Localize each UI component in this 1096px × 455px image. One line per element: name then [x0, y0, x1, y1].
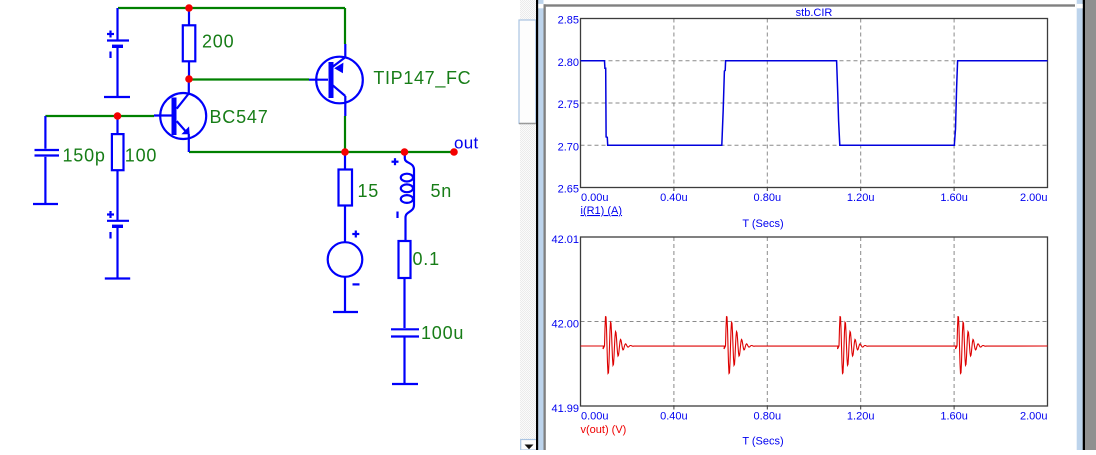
svg-text:0.40u: 0.40u: [660, 411, 688, 423]
svg-text:2.85: 2.85: [558, 15, 579, 27]
svg-text:BC547: BC547: [210, 107, 269, 127]
svg-text:v(out) (V): v(out) (V): [581, 424, 627, 436]
svg-text:0.1: 0.1: [413, 249, 440, 269]
svg-text:150p: 150p: [63, 146, 106, 166]
svg-text:2.00u: 2.00u: [1020, 411, 1048, 423]
svg-text:5n: 5n: [431, 181, 453, 201]
svg-text:out: out: [454, 134, 479, 153]
svg-text:T (Secs): T (Secs): [742, 436, 783, 448]
svg-text:2.80: 2.80: [558, 57, 579, 69]
svg-text:0.80u: 0.80u: [754, 192, 782, 204]
svg-text:41.99: 41.99: [551, 403, 579, 415]
svg-text:1.20u: 1.20u: [847, 192, 875, 204]
svg-text:i(R1) (A): i(R1) (A): [581, 205, 623, 217]
svg-text:42.00: 42.00: [551, 319, 579, 331]
svg-text:0.80u: 0.80u: [754, 411, 782, 423]
svg-text:stb.CIR: stb.CIR: [796, 7, 833, 19]
svg-text:42.01: 42.01: [551, 234, 579, 246]
svg-text:200: 200: [202, 32, 234, 52]
svg-text:2.65: 2.65: [558, 184, 579, 196]
svg-text:2.70: 2.70: [558, 141, 579, 153]
svg-text:1.60u: 1.60u: [940, 192, 968, 204]
svg-text:100u: 100u: [421, 323, 464, 343]
svg-text:1.60u: 1.60u: [940, 411, 968, 423]
svg-text:0.40u: 0.40u: [660, 192, 688, 204]
svg-text:0.00u: 0.00u: [581, 411, 609, 423]
svg-text:TIP147_FC: TIP147_FC: [373, 68, 471, 89]
svg-text:100: 100: [125, 146, 157, 166]
svg-text:0.00u: 0.00u: [581, 192, 609, 204]
svg-text:15: 15: [358, 181, 380, 201]
svg-text:2.00u: 2.00u: [1020, 192, 1048, 204]
svg-text:2.75: 2.75: [558, 99, 579, 111]
svg-text:1.20u: 1.20u: [847, 411, 875, 423]
svg-text:T (Secs): T (Secs): [742, 218, 783, 230]
